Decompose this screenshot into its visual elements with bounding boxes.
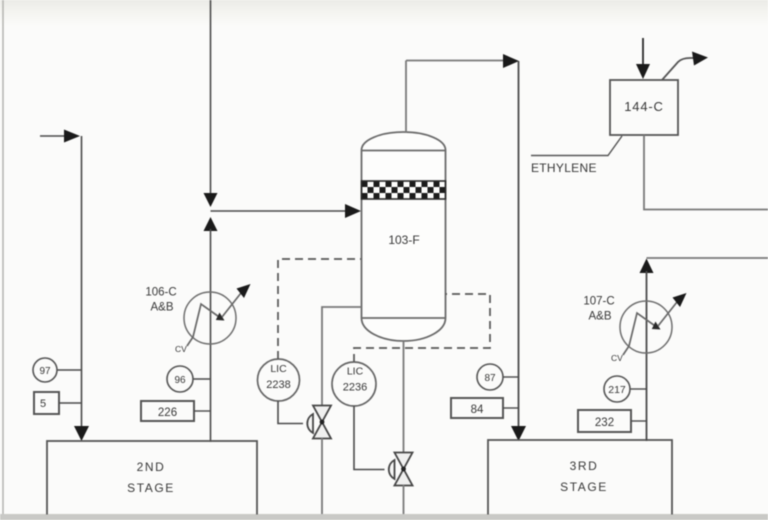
wire: LIC 2236 to valve V2 actuator xyxy=(354,406,385,470)
wire: 96 to line xyxy=(193,378,210,380)
3RD STAGE box xyxy=(488,440,672,519)
valve V1 actuator xyxy=(307,414,313,433)
control valve V1 body xyxy=(313,406,331,423)
frame left border xyxy=(2,0,4,514)
instrument circle 217 xyxy=(604,376,630,402)
2ND STAGE box xyxy=(47,441,257,519)
column bottom tangent line xyxy=(362,317,446,319)
scan bottom band overlay xyxy=(0,515,768,520)
arrow: into 144-C top xyxy=(642,38,644,66)
valve V2 actuator xyxy=(389,460,395,479)
wire: 144-C bottom to right edge xyxy=(644,135,768,210)
heat exchanger 107-C circle xyxy=(620,301,672,353)
wire: valve V2 outlet to bottom xyxy=(403,485,405,514)
wire: 217 to line xyxy=(630,388,646,390)
wire: valve V1 outlet to bottom xyxy=(321,438,323,514)
svg-text:87: 87 xyxy=(484,373,496,384)
svg-text:A&B: A&B xyxy=(150,302,173,314)
dashed signal: LIC 2238 to column xyxy=(278,259,361,359)
wire: 97 to feed line xyxy=(57,369,81,371)
column top tangent line xyxy=(362,150,446,152)
svg-text:106-C: 106-C xyxy=(145,287,176,299)
arrow: overhead into downline xyxy=(503,54,519,68)
column 103-F shell xyxy=(362,132,446,341)
wire: column overhead up xyxy=(405,61,407,134)
box 232 xyxy=(578,410,631,432)
arrow: down into junction xyxy=(204,193,218,207)
control valve V2 body xyxy=(395,453,413,470)
wire: 87 to line xyxy=(503,376,518,378)
wire: 107-C vertical line xyxy=(646,271,648,441)
svg-text:STAGE: STAGE xyxy=(560,480,608,494)
arrow: 107-C outlet xyxy=(673,293,687,307)
box 5 xyxy=(34,392,59,414)
instrument circle 87 xyxy=(477,364,503,390)
svg-text:84: 84 xyxy=(471,404,484,416)
arrow: up into junction xyxy=(204,217,218,231)
svg-text:CV: CV xyxy=(175,344,187,354)
svg-text:226: 226 xyxy=(158,407,177,419)
instrument circle 97 xyxy=(33,358,57,382)
svg-text:103-F: 103-F xyxy=(388,233,419,247)
svg-text:2238: 2238 xyxy=(266,379,290,391)
svg-text:144-C: 144-C xyxy=(624,99,663,114)
wire: 232 to line xyxy=(631,420,646,422)
compressor box 144-C xyxy=(610,80,678,135)
svg-text:LIC: LIC xyxy=(270,363,287,375)
wire: overhead horizontal xyxy=(406,60,505,62)
wire: column side draw to valve V1 xyxy=(322,307,362,406)
svg-text:CV: CV xyxy=(611,353,623,363)
arrow: down into 2ND STAGE xyxy=(74,426,89,441)
wire: junction to 2ND STAGE vertical xyxy=(210,229,212,442)
svg-text:5: 5 xyxy=(40,398,46,410)
svg-text:96: 96 xyxy=(174,375,186,386)
wire: box 5 to feed line xyxy=(59,402,81,404)
svg-text:LIC: LIC xyxy=(347,366,364,378)
wire: LIC 2238 to valve V1 actuator xyxy=(278,401,303,424)
svg-text:2236: 2236 xyxy=(343,382,367,394)
box 84 xyxy=(451,398,503,418)
svg-text:2ND: 2ND xyxy=(137,460,166,474)
107-C zigzag flow path xyxy=(623,313,658,355)
instrument circle 96 xyxy=(167,366,193,392)
heat exchanger 106-C circle xyxy=(184,292,236,344)
box 226 xyxy=(141,401,194,421)
svg-text:ETHYLENE: ETHYLENE xyxy=(531,161,597,175)
scan top band xyxy=(0,0,768,26)
svg-text:97: 97 xyxy=(39,366,51,377)
instrument LIC 2236 xyxy=(332,362,376,406)
svg-text:3RD: 3RD xyxy=(570,459,599,473)
scan bottom band xyxy=(0,514,768,520)
dashed signal: LIC 2236 to column right taps xyxy=(354,294,490,362)
arrow: 106-C outlet xyxy=(237,284,251,298)
svg-text:107-C: 107-C xyxy=(583,296,614,308)
wire: top feed vertical line xyxy=(210,0,212,196)
arrow: feed into column xyxy=(345,204,361,218)
wire: column bottom outlet xyxy=(403,340,405,453)
wire: overhead down to 3RD STAGE xyxy=(518,61,520,427)
arrow: up into discharge line xyxy=(640,259,654,274)
wire: junction to column feed horizontal xyxy=(211,210,349,212)
arrow: down into 3RD STAGE xyxy=(511,426,526,441)
wire: 226 to line xyxy=(194,410,210,412)
wire: 107-C discharge line to right edge xyxy=(647,257,768,259)
svg-text:217: 217 xyxy=(608,384,626,396)
106-C zigzag flow path xyxy=(187,304,222,346)
svg-text:STAGE: STAGE xyxy=(127,481,175,495)
svg-text:232: 232 xyxy=(595,417,614,429)
wire: 84 to line xyxy=(503,407,518,409)
wire: left feed corner down to 2ND STAGE xyxy=(81,136,83,427)
wire: left feed horizontal xyxy=(40,135,66,137)
svg-text:A&B: A&B xyxy=(588,311,611,323)
arrow: 144-C vent up-right xyxy=(662,58,694,80)
column demister checker band xyxy=(362,181,446,199)
instrument LIC 2238 xyxy=(258,359,300,401)
arrow: left feed right-pointing xyxy=(64,130,80,143)
